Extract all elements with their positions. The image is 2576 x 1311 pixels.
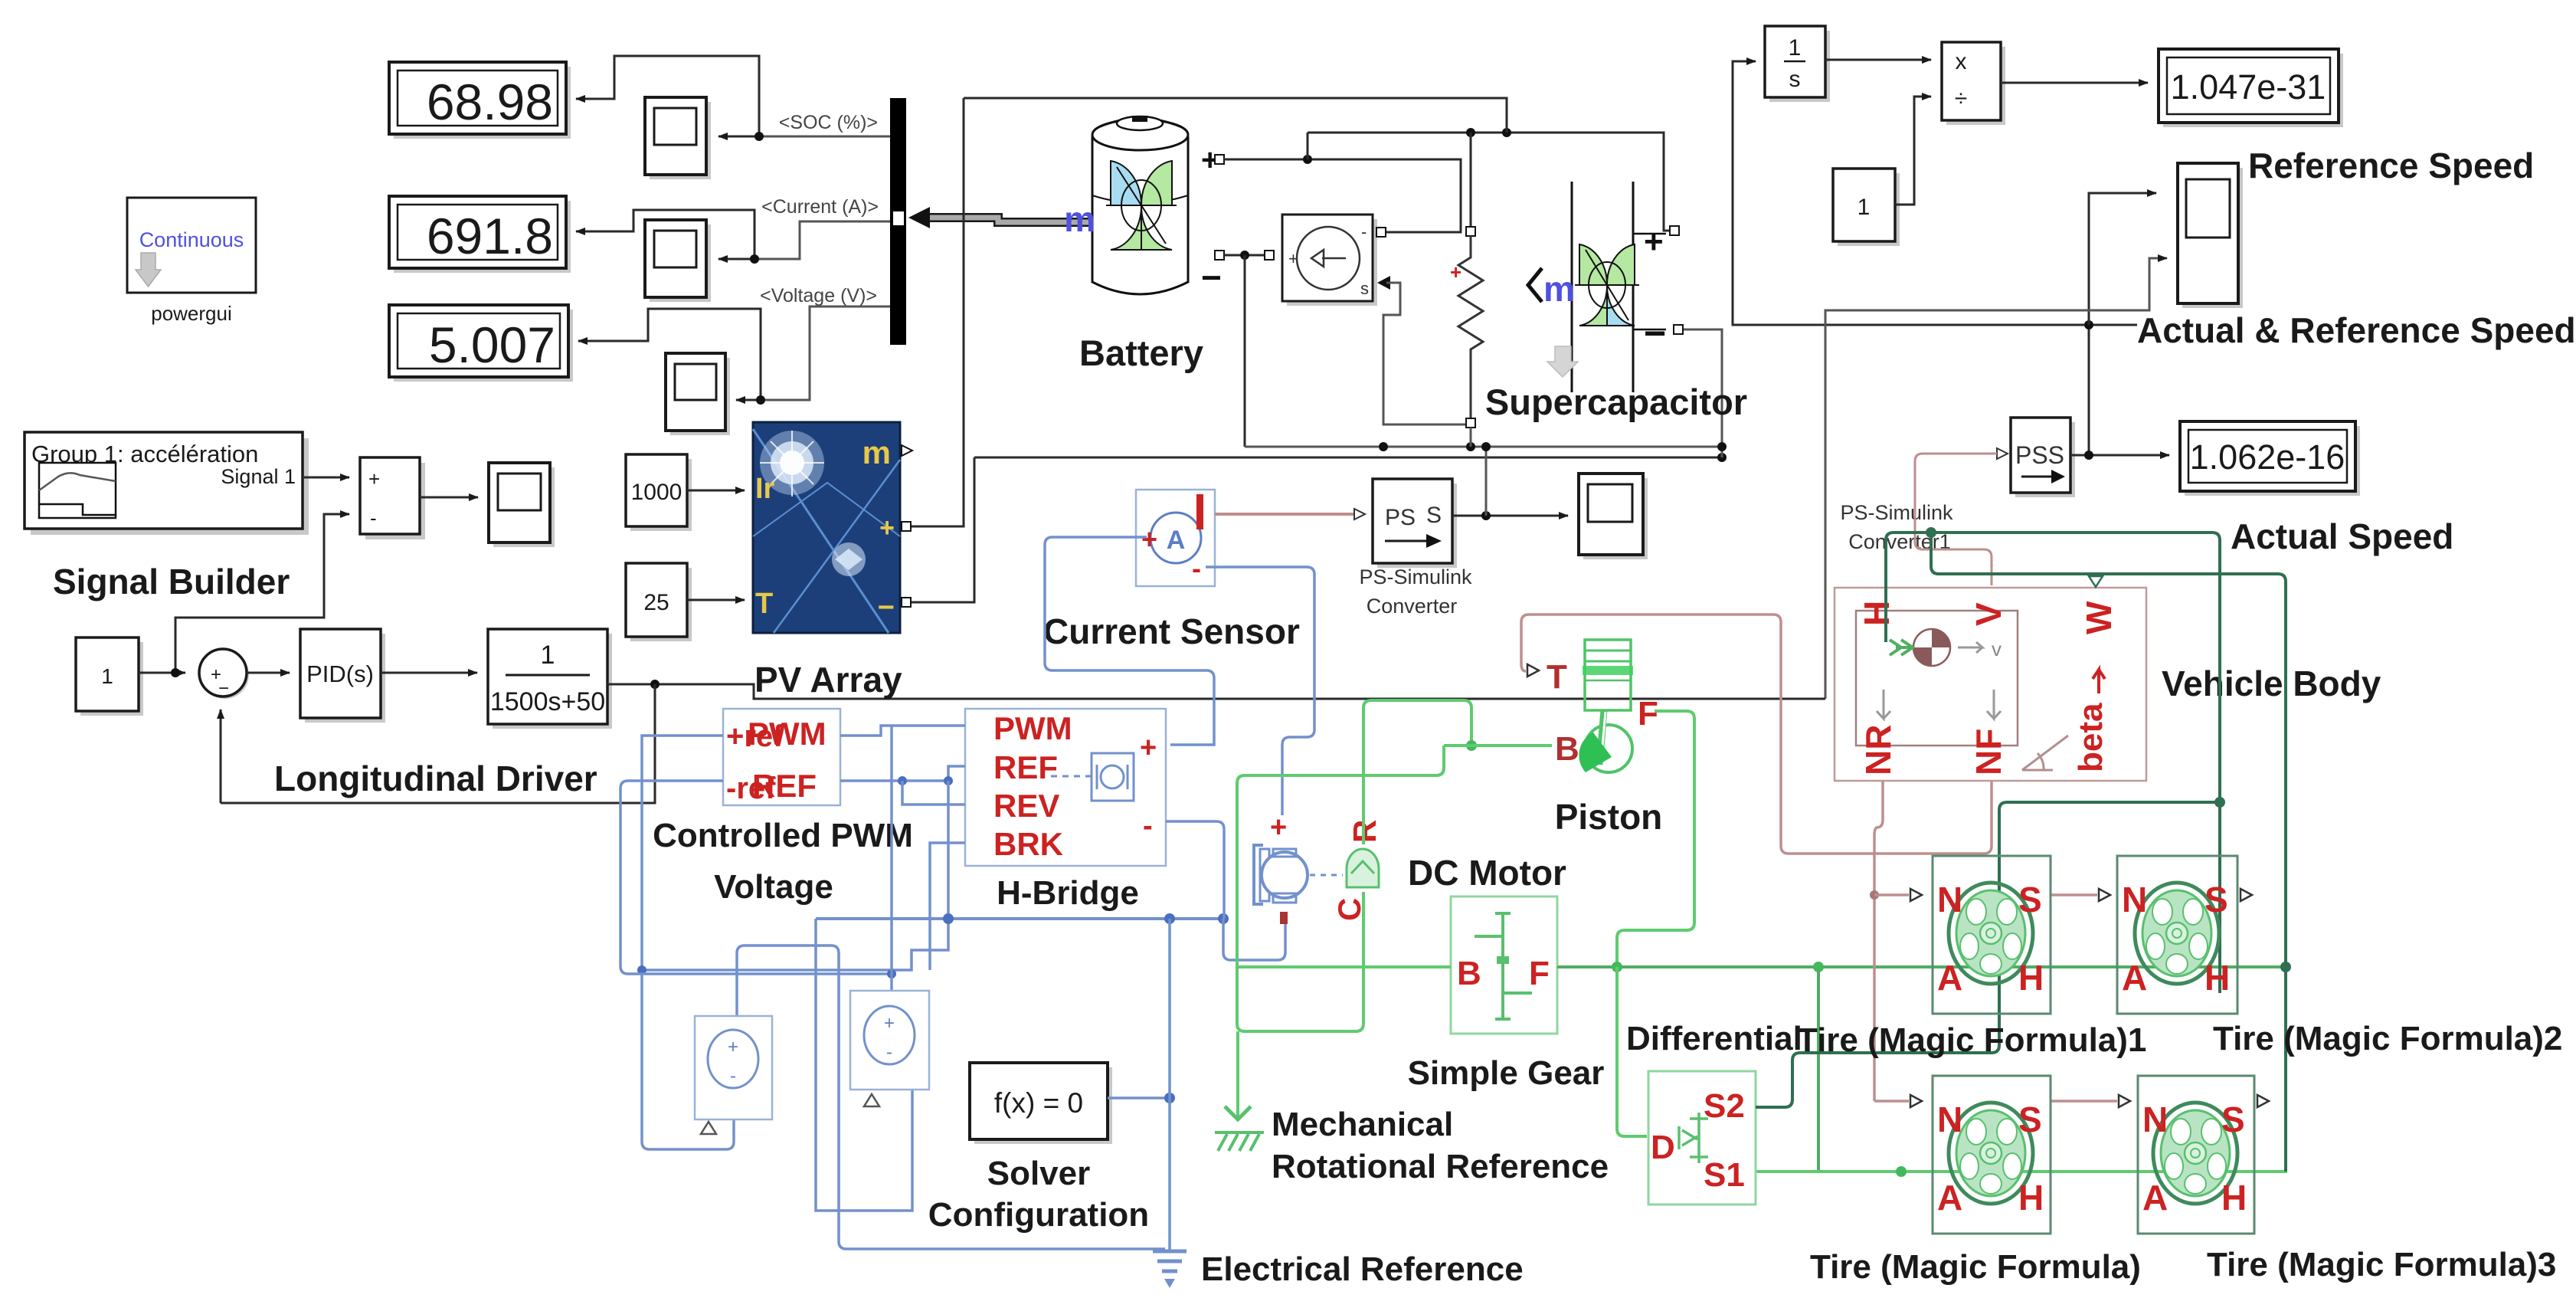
svg-text:DC Motor: DC Motor (1408, 853, 1566, 893)
svg-text:f(x) = 0: f(x) = 0 (994, 1087, 1083, 1119)
wire feedback from TF out (221, 684, 655, 803)
mechanical rotational reference (1215, 1106, 1264, 1151)
svg-text:+: + (1644, 223, 1664, 261)
wire rail to PS-S out (1485, 447, 1488, 516)
wire sum circle out to PID (247, 672, 290, 674)
svg-text:PV Array: PV Array (754, 660, 902, 700)
wire sensor - to motor + blue (1206, 567, 1314, 815)
green vertical to bottom axle (1817, 967, 1820, 1172)
blue wire rail left loop (816, 919, 912, 1211)
svg-text:25: 25 (643, 590, 669, 615)
wire 1/s out to product (1825, 59, 1931, 61)
svg-text:-: - (370, 506, 377, 529)
svg-text:H-Bridge: H-Bridge (997, 874, 1139, 912)
svg-text:PS: PS (1385, 505, 1416, 530)
svg-text:Vehicle Body: Vehicle Body (2162, 664, 2381, 703)
motor C R port icon (1331, 820, 1383, 921)
wire SOC branch to display (576, 56, 759, 136)
wire sensor I out pink (1215, 513, 1354, 516)
Controlled PWM Voltage block (723, 709, 840, 805)
svg-text:H: H (2221, 1178, 2247, 1218)
PV+ wire up to top rail (906, 98, 964, 526)
svg-text:x: x (1956, 49, 1967, 74)
wire Current branch to display (576, 210, 754, 259)
battery - port (1215, 251, 1224, 260)
svg-text:S: S (1426, 503, 1442, 528)
wire battery+ net (1224, 159, 1461, 232)
svg-text:Voltage: Voltage (714, 868, 833, 906)
display 691.8 (389, 196, 571, 273)
blue wire PWM to H-bridge (840, 726, 965, 736)
scope Reference Speed (2178, 163, 2243, 308)
supercapacitor block (1528, 182, 1666, 392)
scope (signal builder) (489, 463, 555, 547)
wire 25 to PV (687, 599, 745, 601)
wire PSS out to display (2070, 454, 2169, 457)
svg-text:Electrical Reference: Electrical Reference (1201, 1250, 1524, 1288)
green wire piston B horizontal (1444, 744, 1552, 747)
supercap minus vertical (1683, 329, 1722, 457)
svg-text:Tire (Magic Formula)2: Tire (Magic Formula)2 (2213, 1020, 2562, 1057)
svg-text:powergui: powergui (151, 302, 232, 325)
svg-text:m: m (862, 434, 891, 470)
svg-text:PID(s): PID(s) (306, 660, 374, 687)
pink wire NF net to piston T (1521, 615, 1992, 854)
svg-text:1: 1 (1858, 195, 1871, 220)
svg-text:F: F (1529, 955, 1550, 992)
svg-text:REF: REF (752, 768, 817, 804)
svg-text:beta: beta (2072, 703, 2110, 772)
wire top rail y128 (964, 98, 1507, 133)
svg-text:Longitudinal Driver: Longitudinal Driver (274, 759, 597, 798)
sum block (square) (360, 457, 425, 539)
wire s port (1383, 283, 1471, 428)
sum circle (199, 649, 249, 699)
svg-text:Piston: Piston (1555, 797, 1663, 837)
scope SOC (645, 97, 711, 179)
svg-text:Signal Builder: Signal Builder (53, 562, 290, 601)
svg-text:−: − (1201, 257, 1222, 297)
wire SOC bus to scope (759, 136, 890, 138)
wire TF out long line (607, 684, 1825, 699)
svg-text:-: - (1192, 552, 1201, 584)
wire y405 horizontal (1825, 258, 2167, 699)
vehicle body block (1835, 588, 2146, 781)
display 1.047e-31 (2159, 49, 2343, 127)
svg-text:Actual & Reference Speed: Actual & Reference Speed (2137, 310, 2576, 350)
svg-text:A: A (1167, 526, 1186, 555)
wire const to sum circle (139, 672, 185, 674)
svg-text:Actual Speed: Actual Speed (2231, 516, 2453, 556)
Signal Builder block (25, 432, 309, 535)
display 5.007 (389, 305, 573, 382)
wire Voltage branch to display (578, 309, 761, 400)
blue wire motor minus (1223, 919, 1285, 960)
svg-text:+: + (1140, 732, 1157, 764)
bus thick wire battery m to bus bar (893, 207, 1092, 228)
TIRE1 (1933, 856, 2051, 1014)
svg-text:S2: S2 (1704, 1087, 1745, 1125)
current source ports (1265, 251, 1274, 260)
green bottom axle (1756, 1170, 2287, 1173)
svg-text:W: W (2079, 601, 2119, 634)
green wire motor R to piston B (1363, 700, 1471, 844)
svg-text:+: + (1270, 811, 1287, 844)
svg-text:Mechanical: Mechanical (1272, 1106, 1453, 1143)
PV ports (902, 445, 912, 456)
voltage source 2 (850, 991, 929, 1106)
svg-text:<Voltage (V)>: <Voltage (V)> (760, 285, 877, 306)
TIRE2 (2117, 856, 2237, 1014)
svg-text:<SOC (%)>: <SOC (%)> (779, 112, 878, 133)
svg-text:Ir: Ir (755, 473, 775, 505)
wire SB out to sum (303, 477, 349, 479)
PS-Simulink Converter1 block (1997, 418, 2075, 497)
blue wire H-bridge minus out (1166, 821, 1224, 919)
green wire piston F down to shaft (1617, 711, 1694, 967)
blue wire REV (902, 781, 965, 805)
pink wire tireB S to tire3 N (2051, 1100, 2117, 1103)
PV- wire up (906, 457, 974, 602)
svg-text:A: A (2142, 1178, 2168, 1218)
differential block (1648, 1071, 1756, 1204)
svg-text:−: − (1644, 312, 1666, 355)
svg-text:÷: ÷ (1955, 86, 1967, 111)
PV Array block (753, 422, 900, 633)
svg-text:N: N (2122, 880, 2147, 919)
svg-text:-: - (886, 1042, 892, 1063)
svg-text:S1: S1 (1704, 1156, 1745, 1194)
svg-text:PS-Simulink: PS-Simulink (1840, 501, 1953, 524)
integrator 1/s (1765, 26, 1830, 102)
svg-text:+: + (1450, 261, 1461, 284)
svg-text:+: + (879, 513, 895, 542)
svg-text:Tire (Magic Formula)3: Tire (Magic Formula)3 (2207, 1246, 2556, 1283)
TIRE3 (2138, 1076, 2254, 1234)
supercap + port (1670, 226, 1679, 235)
supercap - port (1674, 325, 1683, 334)
svg-text:Configuration: Configuration (928, 1196, 1149, 1234)
svg-text:Differential: Differential (1626, 1020, 1802, 1057)
svg-text:F: F (1638, 695, 1658, 733)
svg-text:Tire (Magic Formula)1: Tire (Magic Formula)1 (1797, 1021, 2146, 1059)
svg-text:S: S (2204, 880, 2228, 919)
green vertical tire2 H (2218, 802, 2221, 993)
blue wire -ref loop (620, 781, 892, 974)
wire product out to display (2001, 82, 2148, 84)
svg-text:-: - (1361, 222, 1367, 241)
wire Voltage bus to scope (761, 306, 890, 400)
svg-text:-: - (730, 1066, 736, 1086)
svg-text:D: D (1651, 1129, 1675, 1166)
wire const to product divide input (1895, 97, 1931, 205)
svg-text:A: A (1937, 958, 1962, 998)
DC motor icon (1254, 811, 1308, 924)
blue wire ground vertical (1168, 919, 1171, 1251)
svg-text:PSS: PSS (2015, 441, 2064, 469)
display 68.98 (389, 62, 571, 139)
transfer fcn block (488, 629, 612, 729)
blue wire VS2 top (890, 726, 893, 991)
TIRE bottom left (1933, 1076, 2051, 1234)
svg-text:691.8: 691.8 (427, 208, 553, 264)
wire PSS up (2088, 325, 2090, 455)
wire ref 1 to sum minus (175, 514, 349, 673)
svg-text:s: s (1360, 279, 1369, 298)
svg-text:Battery: Battery (1079, 333, 1203, 373)
blue main rail (816, 917, 1223, 920)
svg-text:REV: REV (993, 788, 1059, 824)
battery + port (1215, 155, 1224, 164)
svg-text:+: + (884, 1013, 895, 1034)
piston block (1547, 640, 1658, 772)
wire PSS input pink (1915, 454, 1997, 585)
blue wire BRK (930, 843, 965, 970)
svg-text:A: A (1937, 1178, 1962, 1218)
green wire C loop (1237, 746, 1444, 1031)
H-Bridge block (965, 709, 1166, 866)
green shaft left (1237, 965, 1451, 969)
battery block (1092, 116, 1188, 294)
blue wire +ref loop (642, 736, 734, 1149)
svg-text:m: m (1543, 269, 1575, 309)
svg-text:1000: 1000 (631, 480, 682, 505)
wire 1000 to PV (687, 490, 745, 492)
svg-text:v: v (1992, 637, 2002, 660)
tire3 S stub (2257, 1095, 2269, 1107)
svg-text:BRK: BRK (993, 826, 1063, 862)
svg-text:1.062e-16: 1.062e-16 (2190, 438, 2345, 477)
svg-text:PWM: PWM (748, 716, 826, 752)
blue wire REF to H-bridge (840, 766, 965, 781)
svg-text:Rotational Reference: Rotational Reference (1272, 1148, 1609, 1185)
scope Current (645, 220, 711, 302)
svg-text:S: S (2018, 880, 2042, 919)
simple gear block (1451, 896, 1557, 1034)
svg-text:-: - (1143, 810, 1153, 842)
svg-text:−: − (878, 592, 895, 624)
svg-text:1: 1 (541, 641, 555, 670)
current sensor block (1136, 490, 1215, 586)
svg-text:m: m (1064, 199, 1095, 239)
wire Current bus to scope (754, 221, 890, 259)
svg-text:1.047e-31: 1.047e-31 (2171, 67, 2326, 107)
svg-text:T: T (1547, 658, 1567, 696)
svg-text:REF: REF (993, 749, 1058, 785)
svg-text:+: + (1141, 523, 1157, 555)
constant 1000 (626, 454, 692, 531)
green wire H input (1886, 533, 2220, 802)
svg-text:Simple Gear: Simple Gear (1408, 1054, 1605, 1092)
svg-text:Current Sensor: Current Sensor (1043, 611, 1300, 651)
constant 25 (626, 563, 692, 641)
svg-text:H: H (2018, 958, 2044, 998)
svg-text:Supercapacitor: Supercapacitor (1485, 382, 1747, 422)
svg-text:S: S (2018, 1100, 2042, 1139)
wire feedback bottom into sum circle (220, 710, 222, 803)
green wire MRR stem (1236, 1031, 1239, 1117)
wire PS-S out to scope (1452, 515, 1568, 517)
svg-text:N: N (1937, 880, 1962, 919)
green wire W line (1931, 533, 2286, 1172)
green wire shaft to differential D (1617, 967, 1647, 1136)
svg-text:C: C (1331, 898, 1367, 921)
electrical reference ground (1153, 1251, 1187, 1288)
green wire S2 up right (1756, 802, 2220, 1107)
svg-text:PS-Simulink: PS-Simulink (1359, 565, 1472, 588)
tire2 S stub (2240, 889, 2252, 901)
svg-text:V: V (1969, 602, 2008, 626)
product block x / divide (1942, 42, 2005, 125)
PID block (300, 629, 385, 723)
wire battery- down (1244, 255, 1246, 447)
constant 1 (left) (76, 637, 143, 716)
svg-text:5.007: 5.007 (429, 316, 555, 373)
wire sum out to scope (420, 497, 478, 499)
svg-text:Signal 1: Signal 1 (221, 465, 296, 488)
bus selector bar (890, 98, 906, 345)
pink wire tire1 S to tire2 N (2051, 893, 2097, 896)
gray rail y583 (1245, 446, 1722, 448)
svg-text:N: N (1937, 1100, 1962, 1139)
pink wire NR net (1874, 781, 1883, 1101)
wire battery- to current source (1224, 254, 1265, 257)
svg-text:T: T (755, 588, 773, 620)
scope Voltage (666, 353, 730, 435)
svg-text:H: H (2204, 958, 2230, 998)
svg-text:Reference Speed: Reference Speed (2248, 146, 2534, 185)
svg-text:A: A (2122, 958, 2147, 998)
dashed link motor to CR (1310, 874, 1343, 877)
constant 1 (top right) (1833, 169, 1900, 246)
piston T input (1527, 664, 1539, 677)
black rail y597 (974, 457, 1722, 459)
current source block (1282, 215, 1377, 306)
blue wire VS1 loop (737, 946, 1165, 1249)
svg-text:Continuous: Continuous (139, 228, 244, 251)
svg-text:Solver: Solver (987, 1155, 1091, 1192)
svg-text:B: B (1457, 955, 1481, 992)
wire PID to TF (381, 672, 477, 674)
svg-text:H: H (2018, 1178, 2044, 1218)
svg-text:1: 1 (101, 664, 113, 688)
svg-text:−: − (218, 678, 229, 699)
svg-text:<Current (A)>: <Current (A)> (761, 196, 879, 218)
wire y424 horizontal (1733, 61, 2137, 325)
voltage source 1 (695, 1016, 772, 1134)
svg-text:H: H (1857, 601, 1897, 626)
solver configuration block (970, 1063, 1112, 1144)
svg-text:Tire (Magic Formula): Tire (Magic Formula) (1810, 1248, 2141, 1286)
svg-text:Controlled PWM: Controlled PWM (653, 817, 913, 854)
wire top rail y173 (1308, 133, 1670, 231)
svg-text:1: 1 (1789, 35, 1802, 61)
display 1.062e-16 (2180, 421, 2360, 496)
svg-text:S: S (2221, 1100, 2245, 1139)
PS-Simulink Converter block (1373, 479, 1457, 568)
svg-text:Converter: Converter (1367, 595, 1458, 618)
svg-text:NR: NR (1858, 725, 1898, 775)
battery fan icon (1106, 161, 1177, 250)
svg-text:B: B (1555, 730, 1579, 768)
svg-text:N: N (2142, 1100, 2168, 1139)
resistor R (1450, 133, 1483, 447)
svg-text:+: + (728, 1037, 738, 1057)
wire sensor + loop blue (1045, 537, 1214, 745)
wire to scope input1 (2089, 193, 2156, 325)
svg-text:68.98: 68.98 (427, 74, 553, 130)
svg-text:PWM: PWM (993, 710, 1072, 746)
svg-text:+: + (1288, 249, 1298, 268)
blue wire solver to ground node (1108, 1096, 1170, 1100)
green shaft right (1557, 965, 2287, 969)
svg-text:NF: NF (1969, 729, 2008, 775)
svg-text:s: s (1789, 67, 1801, 92)
svg-text:+: + (368, 467, 380, 490)
scope (supercap current) (1579, 474, 1648, 559)
svg-text:1500s+50: 1500s+50 (490, 687, 605, 716)
powergui block (127, 198, 256, 325)
